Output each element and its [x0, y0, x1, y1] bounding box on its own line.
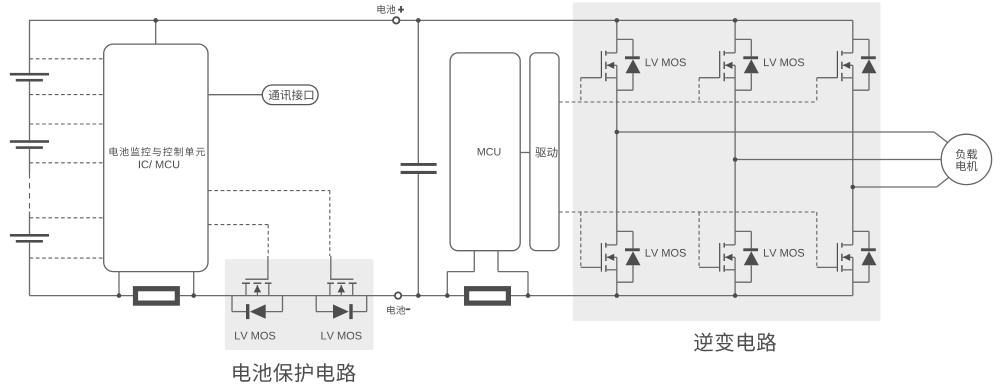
wire - phase B midpoint link	[734, 65, 736, 245]
wire - phase B source to negative rail	[734, 257, 736, 295]
wire - MCU skirt right stub	[497, 251, 499, 272]
wire - bottom negative rail left of BT- terminal	[30, 295, 395, 297]
wire - U1 left bottom leg	[118, 271, 120, 296]
connector - communication interface pill	[262, 85, 318, 105]
label - BT+ terminal	[377, 5, 395, 14]
wire - U1 to communication interface	[208, 94, 262, 96]
node - junction Q7 source on negative rail	[733, 293, 738, 298]
terminal - BT- circle	[395, 292, 401, 298]
wire - dashed gate route U1 to Q1 horizontal	[208, 224, 268, 226]
battery cell BT1	[10, 73, 49, 76]
wire - dashed gate route Q2 vertical	[329, 191, 331, 256]
transistor Q2 - protection LV MOS (body diode right)	[349, 283, 357, 284]
label - Q4 LV MOS	[764, 58, 804, 66]
wire - MCU skirt right shelf	[498, 271, 528, 273]
label - driver	[535, 147, 557, 157]
wire - battery stack segment below B2	[29, 149, 31, 173]
label - MCU	[478, 148, 501, 156]
wire - left battery stack riser top	[29, 20, 31, 73]
caption - battery protection circuit	[233, 363, 355, 382]
wire - phase A midpoint link	[616, 65, 618, 245]
node - junction MCU right leg on bottom rail	[526, 293, 531, 298]
node - junction U1 top on positive rail	[153, 18, 158, 23]
transistor Q5 - inverter high-side LV MOS phase C	[853, 38, 869, 40]
node - junction Q3 drain on positive rail	[615, 18, 620, 23]
battery cell BT2	[10, 140, 49, 143]
battery protection shaded panel	[225, 259, 374, 350]
capacitor C1 - DC link	[401, 163, 437, 166]
node - junction MCU left leg on bottom rail	[445, 293, 450, 298]
wire - battery sense dashed line 5	[30, 217, 104, 219]
wire - phase A drain from positive rail	[616, 20, 618, 53]
wire - MCU skirt left drop	[446, 272, 448, 296]
IC U3 - gate driver box	[530, 53, 559, 251]
node - junction phase A tap	[615, 130, 620, 135]
resistor R2 - shunt on bottom rail (inverter side)	[467, 289, 509, 303]
wire - omitted-cells dashed segment	[29, 173, 31, 212]
wire - MCU to driver	[520, 152, 530, 154]
wire - top positive rail right of BT+ terminal	[400, 19, 853, 21]
label - Q3 LV MOS	[646, 58, 686, 66]
transistor Q3 - inverter high-side LV MOS phase A	[617, 38, 633, 40]
wire - DC link riser below C1	[417, 174, 419, 296]
node - junction phase B tap	[733, 157, 738, 162]
transistor Q1 - protection LV MOS (body diode left)	[242, 283, 250, 284]
wire - battery sense dashed line 4	[30, 162, 104, 164]
wire - battery stack segment above B3	[29, 212, 31, 235]
transistor Q8 - inverter low-side LV MOS phase C	[853, 230, 869, 232]
wire - phase C output	[853, 186, 937, 188]
wire - phase A output	[617, 131, 934, 133]
wire - battery sense dashed line 1	[30, 58, 104, 60]
IC U1 - label line 1 (battery monitor and control unit)	[110, 147, 206, 156]
wire - MCU skirt left stub	[473, 251, 475, 272]
node - junction Q6 source on negative rail	[615, 293, 620, 298]
wire - top positive rail left of BT+ terminal	[30, 19, 393, 21]
label - load motor	[956, 149, 978, 159]
wire - battery stack riser bottom	[29, 243, 31, 296]
wire - dashed high-side gate bus	[559, 101, 817, 103]
label - Q7 LV MOS	[764, 249, 804, 257]
wire - battery sense dashed line 6	[30, 257, 104, 259]
transistor Q4 - inverter high-side LV MOS phase B	[735, 38, 751, 40]
wire - phase C source to negative rail	[852, 257, 854, 295]
wire - phase B drain from positive rail	[734, 20, 736, 53]
wire - dashed gate route U1 to Q2 horizontal	[208, 190, 330, 192]
node - junction U1 left leg on bottom rail	[117, 293, 122, 298]
IC U1 - label line 2 IC/MCU	[139, 160, 179, 168]
wire - MCU skirt right drop	[527, 272, 529, 296]
label - Q1 LV MOS	[235, 332, 275, 340]
terminal - BT+ circle	[393, 17, 399, 23]
transistor Q7 - inverter low-side LV MOS phase B	[735, 230, 751, 232]
wire - bottom negative rail right of BT- terminal	[402, 295, 853, 297]
resistor R1 - shunt on bottom rail	[136, 289, 178, 303]
motor M1 - load motor circle	[941, 134, 991, 184]
node - junction U1 right leg on bottom rail	[191, 293, 196, 298]
wire - battery stack segment B1 to B2	[29, 82, 31, 141]
wire - phase C drain from positive rail	[852, 20, 854, 53]
wire - U1 right bottom leg	[193, 271, 195, 296]
node - junction C1 top on positive rail	[416, 18, 421, 23]
wire - DC link riser above C1	[417, 20, 419, 163]
battery cell BT3	[10, 234, 49, 237]
label - BT- terminal	[387, 306, 405, 315]
inverter shaded panel	[573, 2, 881, 321]
wire - U1 top supply stub	[155, 20, 157, 44]
node - junction Q4 drain on positive rail	[733, 18, 738, 23]
wire - battery sense dashed line 3	[30, 123, 104, 125]
wire - phase B output	[735, 159, 941, 161]
node - junction C1 bottom on negative rail	[416, 293, 421, 298]
wire - battery sense dashed line 2	[30, 94, 104, 96]
IC U1 - battery monitor and control unit box	[104, 44, 208, 272]
IC U2 - MCU box	[450, 53, 520, 251]
caption - inverter circuit	[694, 333, 776, 352]
label - Q2 LV MOS	[321, 332, 361, 340]
node - junction phase C tap	[851, 185, 856, 190]
wire - phase C midpoint link	[852, 65, 854, 245]
wire - dashed low-side gate bus	[559, 211, 817, 213]
wire - MCU skirt left shelf	[447, 271, 474, 273]
transistor Q6 - inverter low-side LV MOS phase A	[617, 230, 633, 232]
wire - dashed gate route Q1 vertical	[267, 225, 269, 256]
label - Q6 LV MOS	[646, 249, 686, 257]
label - communication interface	[269, 90, 314, 101]
wire - phase A source to negative rail	[616, 257, 618, 295]
